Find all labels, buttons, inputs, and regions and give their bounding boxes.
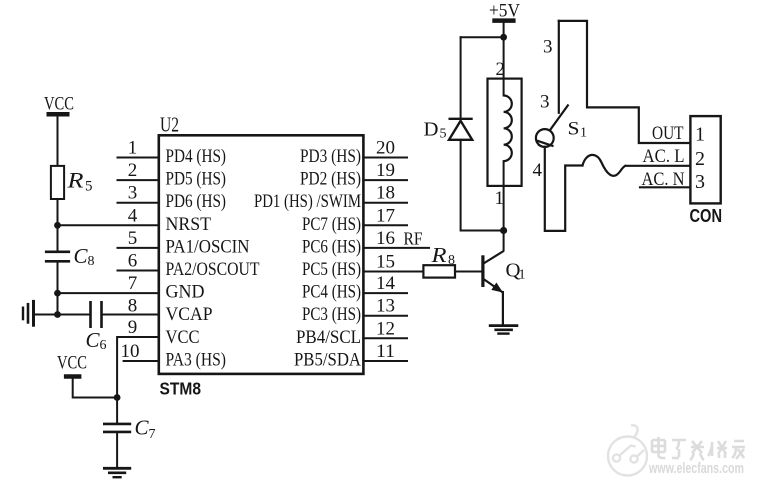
svg-text:1: 1 [495,188,505,209]
pin 16 stub RF [363,247,429,249]
capacitor C8 [45,252,70,261]
svg-text:9: 9 [128,317,138,338]
power VCC top-left bar [47,112,70,117]
svg-text:17: 17 [376,205,395,226]
svg-text:PD4 (HS): PD4 (HS) [166,146,227,167]
svg-text:20: 20 [376,138,395,159]
svg-text:PC5 (HS): PC5 (HS) [302,259,361,280]
wire R5 to C8 [57,199,59,252]
pin 6 stub [118,270,159,272]
resistor R8 [423,265,455,277]
wire switch contact 3 vertical [558,21,560,113]
svg-text:PB5/SDA: PB5/SDA [294,350,361,371]
pin 4 wire NRST [58,224,159,226]
svg-text:PD3 (HS): PD3 (HS) [300,146,361,167]
svg-text:U2: U2 [160,113,179,137]
node coil collector junction [500,227,507,234]
wire switch top loop to OUT [559,21,691,143]
pin 5 stub [118,247,159,249]
wire ground to C6 [34,314,91,316]
power VCC bottom bar [64,374,82,379]
capacitor C7 [103,424,131,432]
node ground rail junction [54,311,61,318]
pin 12 stub [363,337,407,339]
svg-text:11: 11 [376,341,395,362]
svg-text:PB4/SCL: PB4/SCL [296,327,361,348]
svg-text:STM8: STM8 [160,379,202,399]
wire AC.N stub [640,186,690,188]
wire fuse to CON pin 2 [626,165,691,167]
svg-text:PD6 (HS): PD6 (HS) [166,191,227,212]
svg-text:C: C [86,328,101,352]
pin 3 stub [118,202,159,204]
svg-text:8: 8 [448,253,455,268]
switch S1 pivot slash [536,140,554,146]
pin 13 stub [363,315,407,317]
svg-text:R: R [66,168,84,193]
power +5V bar [492,18,515,23]
svg-text:3: 3 [695,171,705,193]
svg-text:14: 14 [376,273,396,294]
wire VCC bottom to junction [73,379,117,398]
wire coil to collector [503,161,505,250]
svg-text:5: 5 [128,228,138,249]
Q1 emitter arrow [491,283,503,293]
fuse squiggle [583,155,626,176]
node +5V branch [500,34,507,41]
svg-text:C: C [74,244,89,268]
pin 10 stub [124,360,159,362]
wire junction to C7 [116,398,118,424]
wire D5 cathode to collector node [461,140,504,231]
svg-text:AC. N: AC. N [642,169,685,190]
svg-text:PD2 (HS): PD2 (HS) [300,169,361,190]
svg-text:4: 4 [533,160,543,181]
watermark chinese characters [652,437,745,460]
wire D5 anode top [460,37,462,119]
wire +5V down to coil [503,21,505,96]
node pin7 rail junction [54,290,61,297]
svg-text:4: 4 [128,205,138,226]
svg-text:AC. L: AC. L [643,146,685,167]
svg-text:NRST: NRST [166,214,212,235]
svg-text:C: C [135,416,150,440]
svg-text:1: 1 [128,138,138,159]
relay coil box [488,79,522,186]
pin 15 wire to R8 [363,271,423,273]
svg-text:18: 18 [376,183,395,204]
svg-text:6: 6 [100,338,107,353]
pin 19 stub [363,179,407,181]
diode D5 [449,119,473,140]
switch S1 blade [539,105,569,147]
capacitor C6 [91,301,102,328]
svg-text:PD1 (HS) /SWIM: PD1 (HS) /SWIM [254,191,361,212]
svg-text:VCAP: VCAP [166,304,213,325]
svg-text:PA1/OSCIN: PA1/OSCIN [166,236,250,257]
switch S1 pivot circle [536,129,554,147]
svg-text:PC6 (HS): PC6 (HS) [302,236,361,257]
svg-text:R: R [430,243,446,267]
pin 18 stub [363,202,407,204]
ground left (rotated) [23,300,34,327]
connector CON box [690,116,720,203]
svg-text:2: 2 [496,59,506,80]
svg-text:PC4 (HS): PC4 (HS) [302,282,361,303]
transistor Q1 [483,251,504,326]
svg-text:1: 1 [519,268,526,283]
svg-text:7: 7 [128,273,138,294]
node VCC C7 junction [114,394,121,401]
wire C8 to ground rail [57,261,59,314]
pin 11 stub [363,360,407,362]
svg-text:5: 5 [440,127,447,142]
pin 8 wire VCAP [102,314,159,316]
svg-text:PA2/OSCOUT: PA2/OSCOUT [166,259,260,280]
svg-text:8: 8 [128,296,138,317]
wire R8 to Q1 base [455,271,483,273]
ground below Q1 [489,326,519,334]
pin 17 stub [363,224,407,226]
svg-text:13: 13 [376,296,395,317]
svg-text:S: S [568,119,580,140]
svg-text:VCC: VCC [166,327,200,348]
svg-text:PD5 (HS): PD5 (HS) [166,169,227,190]
wire C7 to ground [116,432,118,468]
svg-text:1: 1 [695,124,705,146]
svg-text:PC7 (HS): PC7 (HS) [302,214,361,235]
node pin4 rail junction [54,222,61,229]
pin 20 stub [363,157,407,159]
svg-text:www.elecfans.com: www.elecfans.com [648,461,744,477]
svg-text:2: 2 [128,160,138,181]
resistor R5 [51,166,64,199]
pin 2 stub [118,179,159,181]
inductor relay coil [504,96,512,162]
wire switch pin 4 to fuse [545,147,583,231]
svg-text:D: D [424,119,439,141]
svg-text:3: 3 [128,183,138,204]
svg-text:OUT: OUT [652,123,684,144]
pin 7 wire GND [58,292,159,294]
svg-text:PC3 (HS): PC3 (HS) [302,304,361,325]
svg-text:3: 3 [543,37,553,58]
svg-text:6: 6 [128,251,138,272]
svg-text:VCC: VCC [44,94,74,115]
svg-text:10: 10 [121,341,140,362]
svg-text:1: 1 [580,126,587,141]
svg-text:8: 8 [88,254,95,269]
svg-text:3: 3 [540,92,550,113]
watermark logo disc [608,425,647,475]
ground below C7 [103,468,131,477]
pin 14 stub [363,292,407,294]
svg-text:7: 7 [149,427,156,442]
svg-text:15: 15 [376,252,395,273]
svg-text:2: 2 [695,148,705,170]
svg-text:RF: RF [404,229,423,249]
svg-text:12: 12 [376,318,395,339]
pin 9 wire VCC [117,337,159,398]
wire branch to D5 [461,36,504,38]
svg-text:19: 19 [376,160,395,181]
svg-text:VCC: VCC [57,353,87,374]
svg-text:16: 16 [376,228,395,249]
svg-text:GND: GND [166,282,205,303]
pin 1 stub [118,157,159,159]
svg-text:5: 5 [85,179,93,195]
wire VCC to R5 [57,114,59,166]
IC U2 body [159,135,364,374]
svg-text:PA3 (HS): PA3 (HS) [166,350,227,371]
svg-text:CON: CON [690,206,723,226]
